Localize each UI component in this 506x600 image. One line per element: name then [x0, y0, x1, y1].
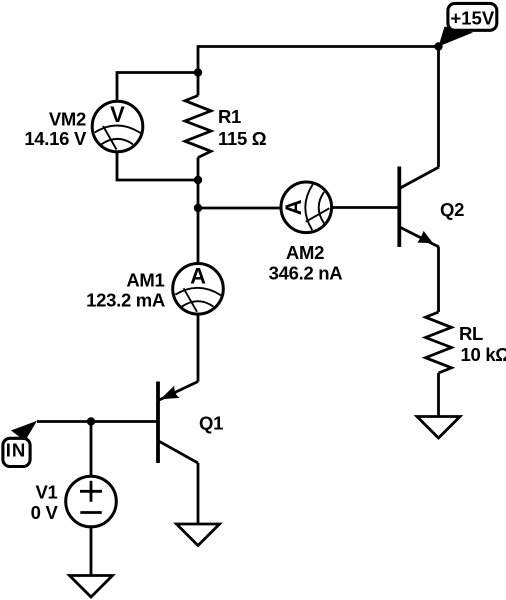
svg-text:RL: RL	[459, 323, 483, 344]
voltage source V1	[66, 476, 117, 527]
emitter diagonal	[399, 227, 439, 247]
wire AM2 to Q2 base	[333, 206, 399, 209]
IN label box	[3, 438, 30, 466]
base bar	[156, 382, 160, 464]
svg-text:10 kΩ: 10 kΩ	[461, 344, 506, 365]
svg-text:Q2: Q2	[440, 199, 464, 220]
ground (Q1 collector)	[177, 524, 220, 546]
ammeter AM2 (rotated)	[281, 182, 332, 233]
svg-text:AM2: AM2	[286, 242, 324, 263]
collector diagonal	[158, 441, 198, 463]
wire V1 bottom	[90, 528, 93, 576]
transistor Q1 (PNP)	[158, 382, 198, 464]
node junction dot R1 bottom	[194, 176, 202, 184]
node junction dot V1	[87, 417, 95, 425]
node +15V junction dot	[434, 42, 442, 50]
+15V flag pointer	[439, 27, 474, 47]
emitter arrow (points to base bar)	[160, 386, 180, 400]
IN flag pointer	[11, 421, 37, 441]
wire RL bottom	[437, 373, 440, 417]
voltmeter VM2	[92, 101, 143, 152]
node junction dot AM2 branch	[194, 204, 202, 212]
wire Q1 base	[37, 420, 158, 423]
svg-text:0 V: 0 V	[31, 502, 59, 523]
emitter arrow (points away from base)	[417, 231, 433, 243]
svg-text:V: V	[110, 102, 125, 127]
wire VM2 bottom branch	[117, 153, 198, 181]
svg-text:+15V: +15V	[450, 8, 495, 29]
svg-text:AM1: AM1	[126, 269, 164, 290]
svg-text:115 Ω: 115 Ω	[218, 128, 267, 149]
wire Q1 collector down	[197, 463, 200, 524]
ground (RL)	[417, 417, 460, 439]
svg-text:14.16 V: 14.16 V	[24, 128, 87, 149]
collector diagonal	[399, 167, 439, 189]
wire node between junctions	[197, 180, 200, 208]
svg-text:123.2 mA: 123.2 mA	[86, 289, 165, 310]
wire AM1 to Q1 emitter	[197, 315, 200, 382]
base bar	[397, 167, 401, 248]
resistor R1	[185, 96, 211, 158]
svg-text:VM2: VM2	[49, 108, 86, 129]
wire to AM2	[198, 207, 280, 210]
ammeter AM1	[173, 264, 224, 315]
emitter diagonal	[158, 382, 198, 401]
svg-text:IN: IN	[6, 439, 27, 460]
svg-text:V1: V1	[35, 481, 57, 502]
resistor RL	[426, 312, 452, 373]
svg-text:346.2 nA: 346.2 nA	[269, 263, 343, 284]
svg-text:Q1: Q1	[199, 412, 223, 433]
wire R1 bottom stub	[197, 158, 200, 181]
ground (V1)	[70, 576, 113, 598]
wire top rail from R1 top corner to +15V node	[198, 47, 439, 96]
+15V label box	[448, 3, 497, 30]
node junction dot R1 top	[194, 68, 202, 76]
wire Q2 collector vertical to +15V node	[437, 47, 440, 168]
wire down to AM1	[197, 208, 200, 263]
wire VM2 top branch	[117, 73, 198, 101]
wire V1 top	[90, 422, 93, 476]
svg-text:A: A	[190, 264, 206, 289]
transistor Q2 (NPN)	[399, 167, 439, 248]
wire Q2 emitter down to RL	[437, 247, 440, 312]
svg-text:A: A	[281, 199, 306, 215]
svg-text:R1: R1	[218, 106, 241, 127]
